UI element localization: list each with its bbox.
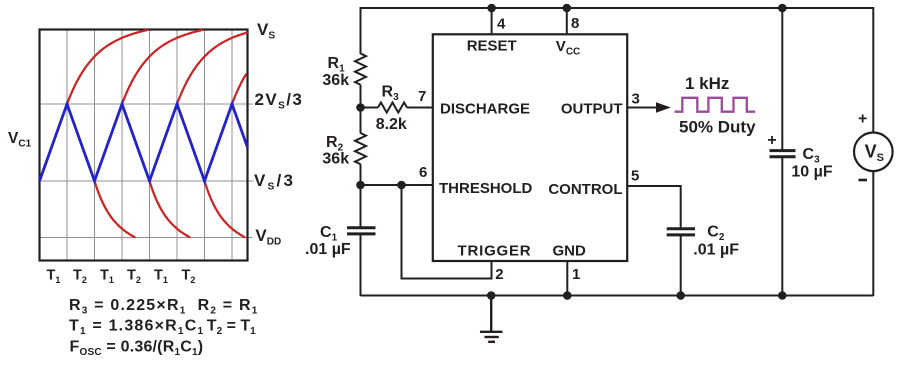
plot border (40, 30, 248, 261)
node: discharge junction (356, 103, 365, 112)
wire: bottom ground rail (361, 295, 874, 297)
svg-text:VDD: VDD (255, 226, 281, 248)
svg-text:R2 = R1: R2 = R1 (198, 297, 259, 317)
wire: top VCC rail (361, 7, 874, 9)
svg-text:RESET: RESET (467, 38, 517, 55)
svg-text:+: + (858, 111, 867, 128)
svg-text:+: + (767, 132, 776, 149)
output arrow head (656, 102, 671, 112)
source VS circle (854, 133, 893, 172)
svg-text:THRESHOLD: THRESHOLD (439, 180, 533, 197)
node: pin 8 junction (563, 4, 572, 13)
svg-text:6: 6 (419, 164, 427, 181)
svg-text:T1: T1 (100, 268, 114, 286)
svg-text:R3 = 0.225×R1: R3 = 0.225×R1 (69, 297, 186, 317)
svg-text:36k: 36k (322, 151, 349, 168)
blue capacitor voltage triangle wave VC1 (40, 104, 248, 181)
svg-text:VC1: VC1 (8, 130, 32, 150)
svg-text:50% Duty: 50% Duty (679, 118, 756, 137)
node: ground junction (487, 291, 496, 300)
node: threshold junction on rail (356, 181, 365, 190)
node: pin 4 junction (487, 4, 496, 13)
svg-text:VCC: VCC (556, 38, 580, 58)
node: trigger branch junction (397, 181, 406, 190)
resistor R2 (355, 133, 366, 164)
svg-text:CONTROL: CONTROL (548, 181, 622, 198)
wire: VS source to bottom rail (872, 171, 874, 296)
minus sign VS source (859, 179, 868, 182)
node: C3 top junction (778, 4, 787, 13)
svg-text:T1 = 1.386×R1C1: T1 = 1.386×R1C1 (69, 318, 204, 338)
wire: C2 to bottom rail (680, 235, 682, 296)
node: C3 bottom junction (778, 291, 787, 300)
svg-text:T2 = T1: T2 = T1 (207, 318, 256, 338)
wire: C3 branch top (781, 8, 783, 151)
wire: R3 to pin 7 (407, 107, 433, 109)
wire: threshold to pin 6 (361, 184, 434, 186)
resistor R3 (378, 103, 407, 113)
svg-text:T2: T2 (127, 268, 141, 286)
svg-text:OUTPUT: OUTPUT (561, 101, 623, 118)
svg-text:T1: T1 (47, 268, 61, 286)
wire: right rail top to VS source (872, 7, 874, 133)
ground symbol (480, 296, 503, 342)
svg-text:8.2k: 8.2k (376, 116, 407, 133)
resistor R1 (355, 54, 366, 85)
wire: C1 to bottom rail (360, 234, 362, 296)
waveform plot grid (40, 30, 254, 261)
svg-text:GND: GND (553, 242, 587, 259)
wire: R2 to threshold node (360, 164, 362, 228)
svg-text:VS: VS (865, 142, 884, 165)
wire: pin 8 to top rail (566, 8, 568, 34)
capacitor C1 (347, 228, 376, 234)
svg-text:T1: T1 (154, 268, 168, 286)
wire: left rail top segment to R1 (360, 7, 362, 54)
svg-text:T2: T2 (182, 268, 196, 286)
output square wave symbol (675, 98, 756, 112)
wire: pin 5 to C2 (627, 186, 681, 229)
svg-text:10 µF: 10 µF (791, 164, 832, 181)
svg-text:2: 2 (495, 266, 503, 283)
svg-text:C2: C2 (707, 224, 725, 244)
wire: pin 4 to top rail (491, 8, 493, 34)
wire: node to R3 (361, 107, 379, 109)
wire: C3 to bottom rail (781, 157, 783, 296)
capacitor C3 (770, 151, 796, 157)
svg-text:5: 5 (631, 168, 639, 185)
svg-text:3: 3 (632, 90, 640, 107)
svg-text:.01 µF: .01 µF (693, 242, 739, 259)
svg-text:1: 1 (572, 266, 580, 283)
svg-text:R3: R3 (382, 84, 400, 104)
svg-text:8: 8 (571, 15, 579, 32)
svg-text:T2: T2 (73, 268, 87, 286)
node: C2 junction (676, 291, 685, 300)
svg-text:.01 µF: .01 µF (305, 241, 351, 258)
svg-text:4: 4 (497, 16, 506, 33)
wire: trigger branch down-right-up to pin 2 (402, 185, 492, 279)
capacitor C2 (667, 229, 695, 235)
node: pin 1 junction (563, 291, 572, 300)
wire: pin 3 output lead (627, 107, 660, 109)
svg-text:7: 7 (418, 88, 426, 105)
svg-text:1 kHz: 1 kHz (685, 74, 729, 93)
red charge/discharge curves (67, 30, 247, 237)
svg-text:DISCHARGE: DISCHARGE (440, 101, 530, 118)
wire: R1 to discharge node (360, 85, 362, 134)
wire: pin 1 to bottom rail (566, 261, 568, 296)
svg-text:2VS/3: 2VS/3 (255, 90, 304, 112)
svg-text:TRIGGER: TRIGGER (458, 242, 532, 259)
svg-text:FOSC = 0.36/(R1C1): FOSC = 0.36/(R1C1) (70, 339, 204, 359)
svg-text:VS/3: VS/3 (254, 171, 295, 193)
IC U1 555 timer box (433, 34, 627, 261)
svg-text:36k: 36k (322, 72, 349, 89)
svg-text:VS: VS (257, 20, 275, 42)
